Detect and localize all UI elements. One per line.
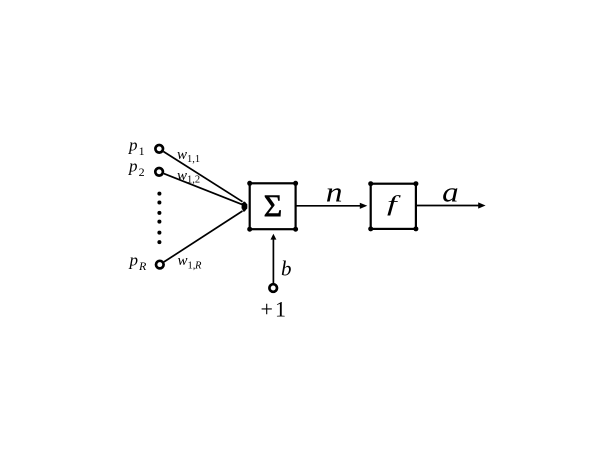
label w1,R <box>178 253 203 271</box>
wire w1,2 from p2 to summer <box>164 174 242 205</box>
node p2 input terminal circle <box>155 168 163 176</box>
arrowhead of wire a <box>478 202 485 208</box>
svg-text:Σ: Σ <box>264 187 283 223</box>
svg-text:w: w <box>177 147 187 163</box>
svg-text:2: 2 <box>139 165 145 179</box>
transfer function symbol f <box>387 192 401 217</box>
svg-text:1,2: 1,2 <box>187 174 200 185</box>
svg-text:n: n <box>326 176 343 208</box>
svg-text:+1: +1 <box>261 297 289 322</box>
arrowhead of wire w1,R <box>242 208 248 212</box>
wire w1,1 from p1 to summer <box>163 152 242 202</box>
node pR input label <box>129 251 148 273</box>
summer box U1 <box>247 181 298 232</box>
svg-text:p: p <box>128 136 138 155</box>
svg-text:R: R <box>194 260 202 271</box>
svg-text:R: R <box>138 259 147 273</box>
ellipsis dots between p2 and pR <box>157 192 161 245</box>
svg-text:1,1: 1,1 <box>187 154 200 165</box>
wire w1,R from pR to summer <box>164 211 243 262</box>
arrowhead of wire n <box>360 203 368 209</box>
node p1 input terminal circle <box>155 145 163 153</box>
node p1 input label <box>128 136 145 159</box>
junction blob at summer input <box>242 202 247 212</box>
arrowhead of wire b <box>271 234 277 240</box>
label n <box>326 176 343 208</box>
node p2 input label <box>128 156 145 179</box>
label a <box>442 177 459 208</box>
svg-text:p: p <box>128 156 138 175</box>
svg-text:p: p <box>129 251 139 270</box>
label w1,2 <box>177 168 200 185</box>
svg-text:1: 1 <box>139 144 145 158</box>
node pR input terminal circle <box>156 261 164 269</box>
bias node circle <box>269 284 277 292</box>
wire a output from transfer function <box>416 205 480 207</box>
arrowhead of wire w1,1 <box>242 201 247 204</box>
svg-text:w: w <box>178 253 188 269</box>
svg-text:b: b <box>281 257 292 281</box>
wire n from summer to transfer function <box>296 205 362 207</box>
arrowhead of wire w1,2 <box>242 203 248 209</box>
label w1,1 <box>177 147 200 165</box>
svg-text:w: w <box>177 168 187 184</box>
svg-text:a: a <box>442 177 459 208</box>
wire b bias from bias node to summer <box>272 238 274 284</box>
transfer function box f <box>368 181 418 231</box>
